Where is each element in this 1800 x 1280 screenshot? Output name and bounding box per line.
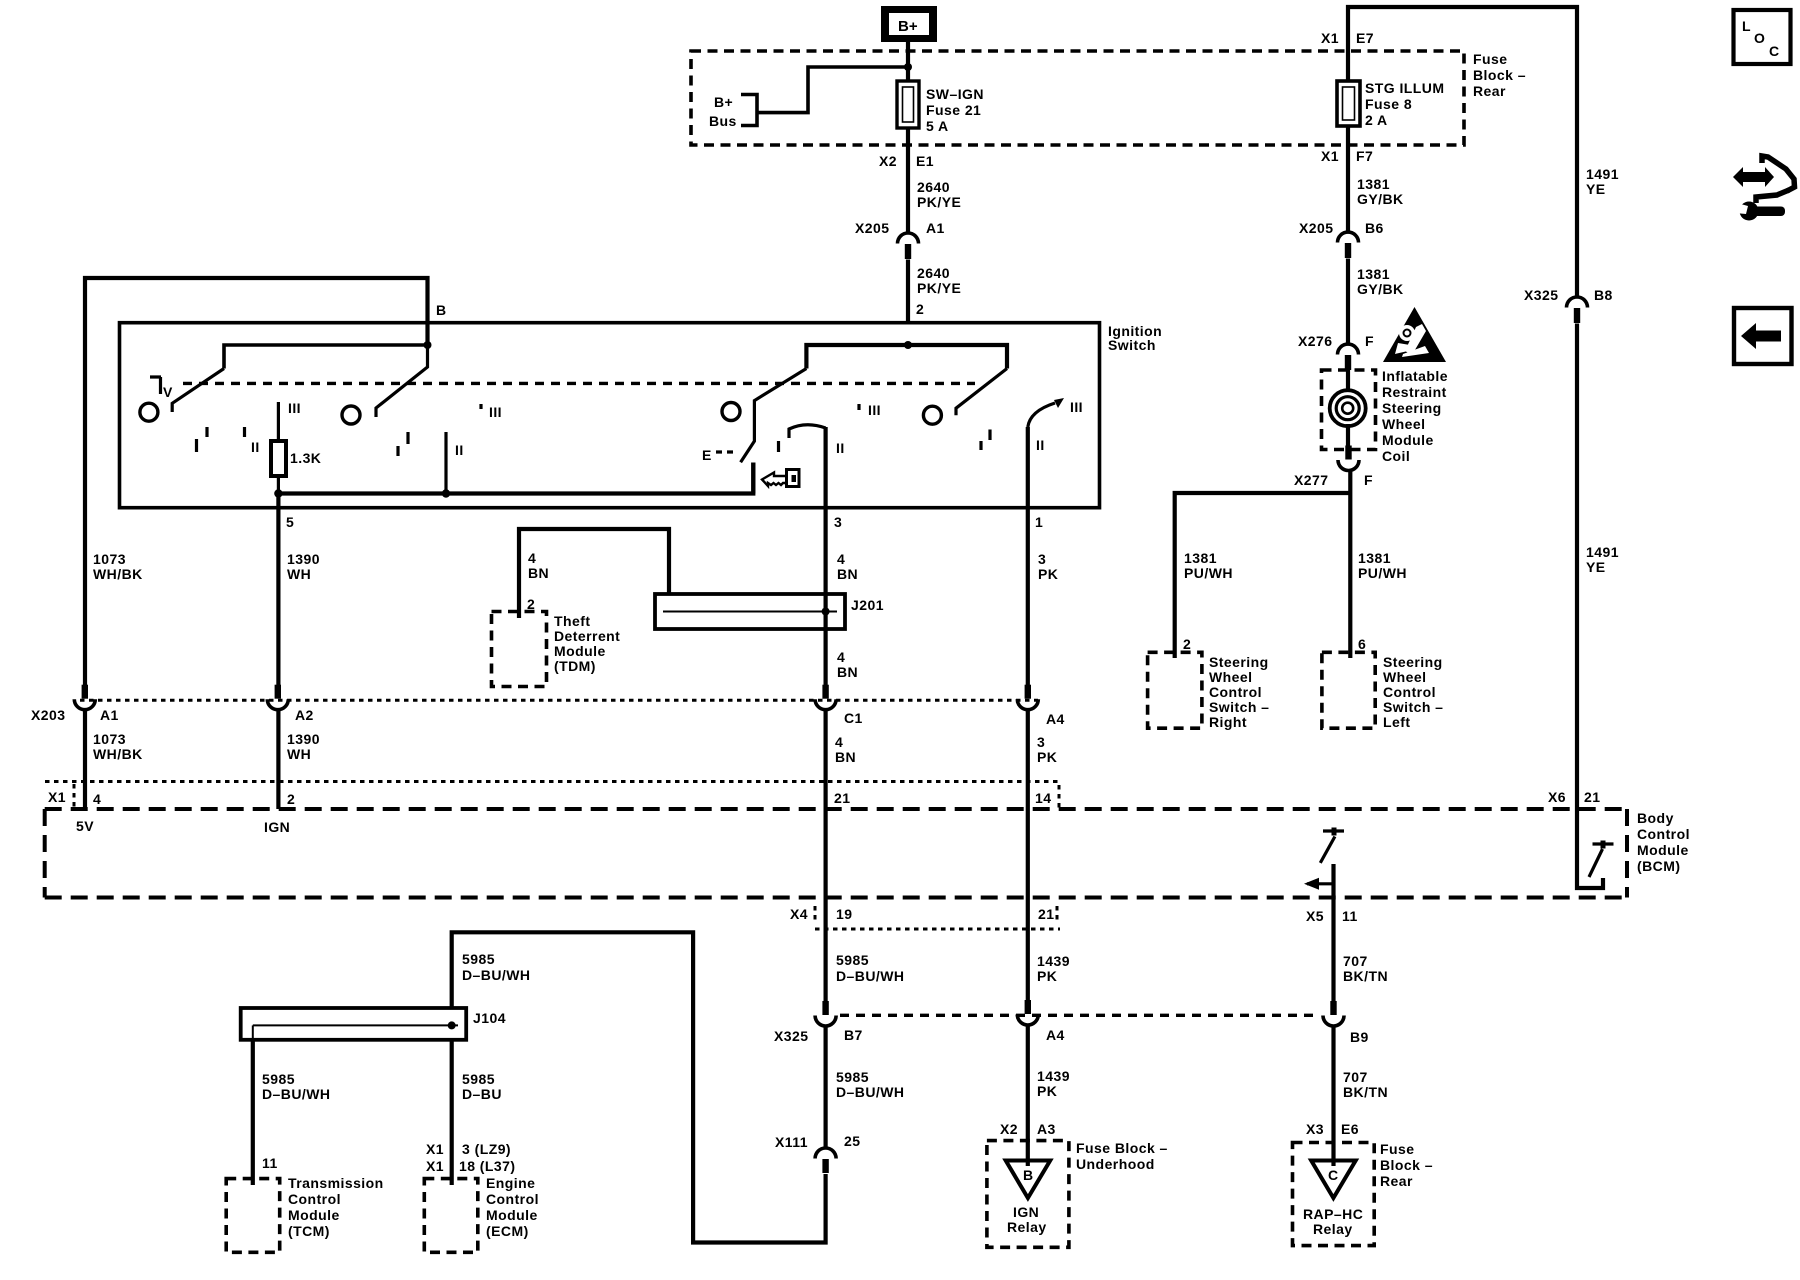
label Engine Control Module (ECM) xyxy=(486,1175,539,1239)
position ticks I gang4 xyxy=(981,430,990,451)
wire pin 3 drop inside box xyxy=(823,427,827,685)
svg-text:YE: YE xyxy=(1586,559,1606,575)
svg-text:RAP–HC: RAP–HC xyxy=(1303,1206,1363,1222)
label circuit 2640 PK/YE (upper) xyxy=(917,179,961,210)
label circuit 4 BN (pin3 upper) xyxy=(837,551,858,582)
resistor 1.3K xyxy=(271,441,286,476)
svg-text:Left: Left xyxy=(1383,714,1410,730)
switch arm gang2 xyxy=(376,345,428,417)
pin label 14 with tick xyxy=(1035,785,1059,808)
engine control module ECM box xyxy=(424,1179,478,1253)
pin label X4 / 19 xyxy=(790,906,852,924)
transmission control module TCM box xyxy=(226,1179,280,1253)
label STG ILLUM Fuse 8 2 A xyxy=(1365,80,1445,128)
svg-text:Control: Control xyxy=(288,1191,341,1207)
body control module BCM box xyxy=(45,809,1627,898)
svg-text:D–BU/WH: D–BU/WH xyxy=(836,968,904,984)
svg-text:L: L xyxy=(1742,18,1751,34)
label Body Control Module (BCM) xyxy=(1637,810,1690,874)
position mark IV gang1 xyxy=(150,377,173,400)
svg-text:PK: PK xyxy=(1038,566,1058,582)
position mark III gang4 xyxy=(859,402,881,418)
svg-text:5985: 5985 xyxy=(836,952,869,968)
svg-text:Switch –: Switch – xyxy=(1383,699,1443,715)
svg-text:III: III xyxy=(868,402,881,418)
wire A4 to BCM pin 14 xyxy=(1026,710,1030,898)
label circuit 707 BK/TN (lower) xyxy=(1343,1069,1388,1100)
position mark II gang1 xyxy=(245,427,260,455)
label circuit 1381 PU/WH (right switch) xyxy=(1184,550,1233,581)
steering wheel control switch right box xyxy=(1148,652,1202,728)
svg-text:IGN: IGN xyxy=(264,819,290,835)
svg-text:3: 3 xyxy=(1037,734,1045,750)
svg-text:B+: B+ xyxy=(898,18,918,35)
switch arm gang3 key-in xyxy=(741,369,807,463)
label circuit 1073 WH/BK (lower) xyxy=(93,731,143,762)
wire X111 return loop to J104 xyxy=(452,932,826,1242)
label X277 / F xyxy=(1294,472,1373,488)
svg-text:Module: Module xyxy=(1637,842,1689,858)
pin label X2 E1 xyxy=(879,153,934,169)
svg-text:Relay: Relay xyxy=(1007,1219,1047,1235)
B+ Bus terminal bracket xyxy=(741,95,757,126)
svg-text:Deterrent: Deterrent xyxy=(554,628,620,644)
svg-text:1073: 1073 xyxy=(93,551,126,567)
wire pin 5 drop xyxy=(276,494,280,686)
svg-text:5 A: 5 A xyxy=(926,118,949,134)
svg-text:1.3K: 1.3K xyxy=(290,450,321,466)
svg-text:WH/BK: WH/BK xyxy=(93,746,143,762)
wire BCM X5 to X325 B9 xyxy=(1331,898,1335,1001)
label circuit 3 PK (pin1 upper) xyxy=(1038,551,1058,582)
svg-text:Rear: Rear xyxy=(1473,83,1506,99)
wire fuse 21 to connector X205 A1 xyxy=(906,128,910,233)
svg-text:X2: X2 xyxy=(879,153,897,169)
svg-text:Right: Right xyxy=(1209,714,1247,730)
svg-text:3 (LZ9): 3 (LZ9) xyxy=(462,1141,511,1157)
svg-text:X1: X1 xyxy=(1321,148,1339,164)
wire X205 B6 to X276 xyxy=(1346,259,1350,345)
wire BCM to X325 A4 xyxy=(1026,898,1030,1000)
label X325 / B7 xyxy=(774,1027,863,1044)
label X325 / B8 xyxy=(1524,287,1613,303)
connector X276 pin F xyxy=(1338,344,1359,370)
svg-text:X1: X1 xyxy=(426,1158,444,1174)
svg-text:21: 21 xyxy=(1584,789,1600,805)
svg-text:14: 14 xyxy=(1035,790,1051,806)
label circuit 1491 YE (mid right) xyxy=(1586,544,1619,575)
svg-text:Steering: Steering xyxy=(1382,400,1442,416)
label circuit 707 BK/TN (upper) xyxy=(1343,953,1388,984)
coil spiral symbol xyxy=(1330,390,1366,426)
svg-text:707: 707 xyxy=(1343,953,1368,969)
BCM driver switch (X5 output) xyxy=(1304,828,1344,899)
svg-text:F: F xyxy=(1365,333,1374,349)
svg-text:X325: X325 xyxy=(1524,287,1559,303)
svg-text:II: II xyxy=(836,440,845,456)
svg-text:5985: 5985 xyxy=(462,1071,495,1087)
svg-text:WH: WH xyxy=(287,566,311,582)
svg-text:A1: A1 xyxy=(926,220,945,236)
svg-text:X276: X276 xyxy=(1298,333,1333,349)
contact curve gang3 to pin 3 xyxy=(789,425,826,438)
icon wrench and arrow symbol xyxy=(1733,156,1795,221)
svg-text:2: 2 xyxy=(287,791,295,807)
splice pack J104 xyxy=(241,1008,467,1040)
svg-text:3: 3 xyxy=(834,514,842,530)
svg-text:1381: 1381 xyxy=(1357,266,1390,282)
svg-text:B: B xyxy=(1023,1167,1034,1183)
svg-text:A2: A2 xyxy=(295,707,314,723)
switch arm gang4 xyxy=(956,369,1007,416)
wire C1 to BCM pin 21 xyxy=(823,710,827,898)
label Transmission Control Module (TCM) xyxy=(288,1175,384,1239)
svg-text:C: C xyxy=(1769,43,1780,59)
connector X325 pin A4 xyxy=(1017,1000,1038,1025)
label RAP-HC Relay xyxy=(1303,1206,1363,1237)
wire A2 to BCM pin 2 xyxy=(276,710,280,809)
svg-text:5985: 5985 xyxy=(836,1069,869,1085)
svg-text:Wheel: Wheel xyxy=(1383,669,1426,685)
connector X203 pin A2 xyxy=(267,685,288,710)
pin label 21 (below BCM) with tick xyxy=(1038,906,1057,922)
svg-text:GY/BK: GY/BK xyxy=(1357,191,1404,207)
svg-text:2640: 2640 xyxy=(917,179,950,195)
svg-text:25: 25 xyxy=(844,1133,860,1149)
node splice J104 junction xyxy=(448,1021,456,1029)
svg-text:X205: X205 xyxy=(1299,220,1334,236)
svg-text:X2: X2 xyxy=(1000,1121,1018,1137)
label circuit 1381 GY/BK (upper) xyxy=(1357,176,1404,207)
svg-text:Module: Module xyxy=(1382,432,1434,448)
label IGN Relay xyxy=(1007,1204,1047,1235)
node junction gang2 II bus xyxy=(442,489,450,497)
svg-text:B7: B7 xyxy=(844,1027,863,1043)
svg-text:4: 4 xyxy=(93,791,101,807)
svg-text:PK: PK xyxy=(1037,968,1057,984)
svg-text:Theft: Theft xyxy=(554,613,590,629)
svg-text:Module: Module xyxy=(288,1207,340,1223)
svg-text:PK/YE: PK/YE xyxy=(917,194,961,210)
svg-text:2: 2 xyxy=(1183,636,1191,652)
svg-text:Body: Body xyxy=(1637,810,1674,826)
wire X325 A4 to IGN relay xyxy=(1026,1026,1030,1166)
svg-text:BN: BN xyxy=(837,566,858,582)
position ticks I gang2 xyxy=(398,432,408,456)
svg-text:Switch: Switch xyxy=(1108,337,1156,353)
steering wheel control switch left box xyxy=(1322,652,1375,728)
connector row X1 dotted line xyxy=(45,780,1060,783)
svg-text:A1: A1 xyxy=(100,707,119,723)
svg-text:Control: Control xyxy=(1383,684,1436,700)
inflatable restraint coil module box xyxy=(1322,370,1376,450)
connector X205 pin A1 xyxy=(898,233,919,259)
contact circle gang4 xyxy=(923,406,941,424)
svg-text:Bus: Bus xyxy=(709,113,737,129)
label Inflatable Restraint Steering Wheel Module Coil xyxy=(1382,368,1448,464)
svg-text:YE: YE xyxy=(1586,181,1606,197)
svg-text:BN: BN xyxy=(837,664,858,680)
svg-text:A3: A3 xyxy=(1037,1121,1056,1137)
svg-text:1: 1 xyxy=(1035,514,1043,530)
label Theft Deterrent Module (TDM) xyxy=(554,613,620,674)
svg-text:GY/BK: GY/BK xyxy=(1357,281,1404,297)
wire X205 A1 to ignition switch pin 2 xyxy=(906,260,910,325)
svg-text:Fuse: Fuse xyxy=(1473,51,1507,67)
svg-text:F7: F7 xyxy=(1356,148,1373,164)
svg-text:III: III xyxy=(288,400,301,416)
label circuit 2640 PK/YE (lower) xyxy=(917,265,961,296)
svg-text:1381: 1381 xyxy=(1358,550,1391,566)
svg-text:C1: C1 xyxy=(844,710,863,726)
wire J104 to TCM xyxy=(252,1025,254,1039)
svg-text:D–BU/WH: D–BU/WH xyxy=(462,967,530,983)
svg-text:A4: A4 xyxy=(1046,1027,1065,1043)
svg-text:Inflatable: Inflatable xyxy=(1382,368,1448,384)
wire X277 to SWCS left xyxy=(1348,471,1352,659)
wire A1 to BCM pin 4 xyxy=(83,710,87,809)
svg-text:B6: B6 xyxy=(1365,220,1384,236)
connector X277 pin F xyxy=(1338,446,1359,471)
svg-text:B: B xyxy=(436,302,447,318)
pin label X3 / E6 xyxy=(1306,1121,1359,1137)
svg-text:III: III xyxy=(1070,399,1083,415)
svg-text:(ECM): (ECM) xyxy=(486,1223,529,1239)
svg-text:E7: E7 xyxy=(1356,30,1374,46)
label SW-IGN Fuse 21 5 A xyxy=(926,86,984,134)
svg-text:(TCM): (TCM) xyxy=(288,1223,330,1239)
svg-text:6: 6 xyxy=(1358,636,1366,652)
svg-text:D–BU/WH: D–BU/WH xyxy=(836,1084,904,1100)
svg-text:Steering: Steering xyxy=(1209,654,1269,670)
svg-text:Engine: Engine xyxy=(486,1175,535,1191)
label X205 / B6 xyxy=(1299,220,1384,236)
wire resistor to internal bus xyxy=(277,476,280,494)
svg-text:(TDM): (TDM) xyxy=(554,658,596,674)
svg-text:II: II xyxy=(455,442,464,458)
svg-text:X1: X1 xyxy=(48,789,66,805)
wire X325 B9 to RAP-HC relay xyxy=(1331,1026,1335,1166)
label Steering Wheel Control Switch - Right xyxy=(1209,654,1269,730)
label circuit 5985 D-BU/WH (J104 feed) xyxy=(462,951,530,983)
svg-text:B8: B8 xyxy=(1594,287,1613,303)
position tick I gang3 xyxy=(777,441,780,452)
connector row X325 dashed line xyxy=(840,1014,1319,1017)
pin label X1 F7 xyxy=(1321,148,1373,164)
wire gang3 common stub to bus xyxy=(751,463,755,494)
svg-text:SW–IGN: SW–IGN xyxy=(926,86,984,102)
BCM driver switch (X6 input) xyxy=(1577,811,1614,888)
pin label X1 E7 xyxy=(1321,30,1374,46)
svg-text:Control: Control xyxy=(1209,684,1262,700)
svg-text:PK: PK xyxy=(1037,749,1057,765)
svg-text:1390: 1390 xyxy=(287,731,320,747)
label circuit 1439 PK (upper) xyxy=(1037,953,1070,984)
node junction pin 2 bar xyxy=(904,341,912,349)
label 4 BN (TDM branch) xyxy=(528,550,549,581)
svg-text:BN: BN xyxy=(835,749,856,765)
fuse block underhood box xyxy=(987,1141,1069,1248)
fuse block rear (bottom) box xyxy=(1293,1143,1375,1246)
svg-text:Fuse 21: Fuse 21 xyxy=(926,102,981,118)
connector X203 pin A1 xyxy=(74,685,95,710)
connector X325 pin B8 xyxy=(1567,297,1588,323)
svg-text:Module: Module xyxy=(486,1207,538,1223)
svg-text:5: 5 xyxy=(286,514,294,530)
svg-text:Wheel: Wheel xyxy=(1382,416,1425,432)
svg-text:WH/BK: WH/BK xyxy=(93,566,143,582)
svg-text:X111: X111 xyxy=(775,1134,808,1150)
svg-text:X1: X1 xyxy=(426,1141,444,1157)
icon back-arrow box xyxy=(1734,308,1792,364)
connector row X4 dotted line xyxy=(815,928,1060,931)
wire B+ box to fuse 21 xyxy=(906,42,910,81)
label E contact with dashes xyxy=(702,447,733,463)
svg-text:707: 707 xyxy=(1343,1069,1368,1085)
svg-text:BK/TN: BK/TN xyxy=(1343,1084,1388,1100)
label circuit 1390 WH (lower) xyxy=(287,731,320,762)
svg-text:WH: WH xyxy=(287,746,311,762)
svg-text:Module: Module xyxy=(554,643,606,659)
svg-text:PU/WH: PU/WH xyxy=(1184,565,1233,581)
svg-text:2: 2 xyxy=(527,596,535,612)
label Steering Wheel Control Switch - Left xyxy=(1383,654,1443,730)
svg-text:5V: 5V xyxy=(76,818,94,834)
label circuit 3 PK (lower) xyxy=(1037,734,1057,765)
svg-text:Restraint: Restraint xyxy=(1382,384,1447,400)
dashed gang common line xyxy=(183,382,975,385)
wire pin B loop to X203 A1 drop xyxy=(85,278,428,685)
svg-text:II: II xyxy=(1036,437,1045,453)
svg-text:19: 19 xyxy=(836,906,852,922)
svg-text:A4: A4 xyxy=(1046,711,1065,727)
wire B+ Bus to junction xyxy=(757,67,908,113)
airbag warning triangle xyxy=(1383,307,1446,362)
label B+ Bus xyxy=(709,94,737,129)
svg-text:PU/WH: PU/WH xyxy=(1358,565,1407,581)
svg-text:(BCM): (BCM) xyxy=(1637,858,1680,874)
pin label X5 / 11 xyxy=(1306,908,1358,924)
svg-text:Steering: Steering xyxy=(1383,654,1443,670)
pin labels X1 3 (LZ9) / X1 18 (L37) xyxy=(426,1141,516,1174)
svg-text:D–BU/WH: D–BU/WH xyxy=(262,1086,330,1102)
label X205 / A1 xyxy=(855,220,945,236)
svg-text:BN: BN xyxy=(528,565,549,581)
connector row X203 dotted line xyxy=(80,699,1038,702)
svg-text:X4: X4 xyxy=(790,906,808,922)
battery feed B+ box xyxy=(881,6,937,42)
svg-text:Fuse: Fuse xyxy=(1380,1141,1414,1157)
svg-text:Control: Control xyxy=(486,1191,539,1207)
svg-text:4: 4 xyxy=(837,551,845,567)
svg-text:II: II xyxy=(251,439,260,455)
node junction pin B bar xyxy=(424,341,432,349)
svg-text:1381: 1381 xyxy=(1357,176,1390,192)
svg-text:X1: X1 xyxy=(1321,30,1339,46)
svg-text:1073: 1073 xyxy=(93,731,126,747)
switch arm gang1 xyxy=(172,369,224,413)
wire gang1-2 common bar xyxy=(224,345,428,369)
label circuit 1381 GY/BK (lower) xyxy=(1357,266,1404,297)
label Fuse Block - Rear (top) xyxy=(1473,51,1526,99)
svg-text:Fuse Block –: Fuse Block – xyxy=(1076,1140,1168,1156)
svg-text:F: F xyxy=(1364,472,1373,488)
svg-text:2: 2 xyxy=(916,301,924,317)
wire J104 to ECM xyxy=(450,1040,454,1185)
pin label X6 / 21 xyxy=(1548,789,1600,805)
icon LOC box xyxy=(1734,10,1791,64)
svg-text:D–BU: D–BU xyxy=(462,1086,502,1102)
svg-text:Fuse 8: Fuse 8 xyxy=(1365,96,1412,112)
connector X205 pin B6 xyxy=(1338,232,1359,258)
svg-text:X6: X6 xyxy=(1548,789,1566,805)
svg-text:X5: X5 xyxy=(1306,908,1324,924)
wire X325 B8 to BCM X6 21 xyxy=(1575,324,1579,812)
svg-text:Wheel: Wheel xyxy=(1209,669,1252,685)
svg-text:E6: E6 xyxy=(1341,1121,1359,1137)
svg-text:4: 4 xyxy=(528,550,536,566)
svg-text:Rear: Rear xyxy=(1380,1173,1413,1189)
fuse block - rear (top dashed box) xyxy=(691,51,1464,145)
node junction resistor bus xyxy=(274,489,282,497)
position ticks I gang1 xyxy=(197,427,208,452)
wire top loop fuse 8 to 1491 YE drop xyxy=(1348,7,1577,297)
svg-text:1439: 1439 xyxy=(1037,1068,1070,1084)
wire coil to X277 xyxy=(1346,424,1350,446)
svg-text:Block –: Block – xyxy=(1473,67,1526,83)
svg-text:X205: X205 xyxy=(855,220,890,236)
label X111 / 25 xyxy=(775,1133,860,1150)
wire into coil xyxy=(1346,370,1350,392)
label Ignition Switch xyxy=(1108,323,1162,353)
wire gang4 common bar from pin 2 xyxy=(806,345,1007,369)
svg-text:4: 4 xyxy=(837,649,845,665)
svg-text:18 (L37): 18 (L37) xyxy=(459,1158,516,1174)
position mark III gang2 xyxy=(481,404,502,420)
svg-text:X203: X203 xyxy=(31,707,66,723)
label Fuse Block - Underhood xyxy=(1076,1140,1168,1172)
svg-text:Control: Control xyxy=(1637,826,1690,842)
label circuit 4 BN (lower) xyxy=(835,734,856,765)
svg-text:J104: J104 xyxy=(473,1010,506,1026)
connector X325 pin B9 xyxy=(1323,1001,1344,1026)
connector X203 pin A4 xyxy=(1017,685,1038,710)
label X1 with tick xyxy=(48,784,74,807)
wire branch to SWCS right xyxy=(1175,493,1351,658)
fuse F8 STG ILLUM 2A xyxy=(1337,81,1360,126)
wire TDM branch xyxy=(519,529,669,618)
svg-text:Coil: Coil xyxy=(1382,448,1410,464)
svg-text:X325: X325 xyxy=(774,1028,809,1044)
ignition switch box xyxy=(120,323,1100,508)
svg-text:BK/TN: BK/TN xyxy=(1343,968,1388,984)
svg-text:B+: B+ xyxy=(714,94,733,110)
relay terminal triangle C (RAP-HC relay) xyxy=(1311,1161,1356,1199)
svg-text:E1: E1 xyxy=(916,153,934,169)
node splice B+ bus junction xyxy=(904,63,912,71)
label circuit 1381 PU/WH (left switch) xyxy=(1358,550,1407,581)
svg-text:J201: J201 xyxy=(851,597,884,613)
connector X111 pin 25 xyxy=(815,1148,836,1173)
svg-text:21: 21 xyxy=(1038,906,1054,922)
svg-text:11: 11 xyxy=(1342,908,1358,924)
svg-text:21: 21 xyxy=(834,790,850,806)
wire X325 B7 to X111 xyxy=(823,1026,827,1148)
connector X203 pin C1 xyxy=(815,685,836,710)
wire BCM X4 to X325 B7 xyxy=(823,898,827,1001)
label circuit 1491 YE (upper right) xyxy=(1586,166,1619,197)
relay terminal triangle B (IGN relay) xyxy=(1006,1161,1050,1199)
